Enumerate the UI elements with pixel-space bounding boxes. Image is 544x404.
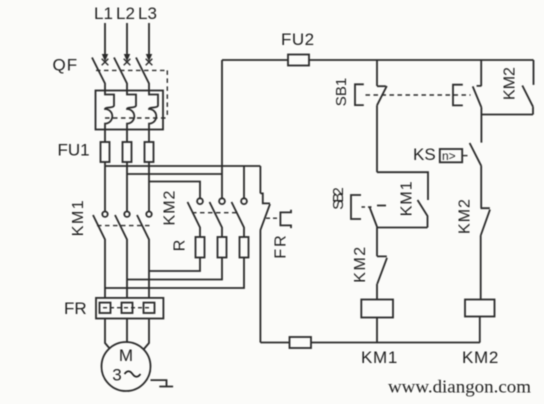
QF dashed vertical (trip linkage): [166, 70, 168, 118]
contactor KM2 main contact 3: [232, 198, 247, 237]
QF box: [96, 91, 164, 130]
svg-text:KM1: KM1: [361, 348, 398, 367]
control top wire with FU2: [222, 59, 534, 61]
svg-text:KM1: KM1: [70, 199, 87, 236]
KS sensor box: [440, 149, 462, 162]
svg-text:KM2: KM2: [502, 67, 519, 100]
thermal relay FR NC contact branch: [260, 166, 270, 343]
motor M circle: [102, 342, 151, 391]
SB1 button actuator bracket: [355, 84, 364, 105]
wire control left rail from FU2 wire down to KM2 contact 2: [221, 60, 223, 198]
QF linkage dashed line: [96, 69, 167, 71]
svg-text:KS: KS: [413, 145, 436, 164]
contactor KM2 main contact 1: [188, 198, 203, 237]
svg-text:3: 3: [112, 366, 121, 385]
contactor KM1 main contact 1: [93, 212, 108, 299]
coil KM1: [361, 300, 393, 318]
wire R1 return to phase3: [149, 258, 200, 272]
circuit breaker QF pole 3 blade: [136, 58, 149, 91]
wire R3 return to phase1: [105, 258, 244, 289]
wire phase 2 FU1 to KM1 contact: [126, 162, 128, 212]
wire phase 3 FU1 to KM1 contact: [148, 162, 150, 212]
wire KM2 coil to bottom rail: [479, 317, 481, 343]
ground symbol: [151, 380, 174, 386]
svg-text:SB1: SB1: [333, 78, 350, 106]
contactor KM1 main contact 3: [137, 212, 152, 299]
svg-text:www.diangon.com: www.diangon.com: [388, 377, 531, 397]
wire FR to motor V: [126, 319, 128, 343]
coil KM2: [465, 300, 495, 317]
node L2 incoming line with arrowhead: [124, 23, 131, 65]
KM1 linkage dashed: [97, 225, 150, 227]
pushbutton SB1 NO contact (right branch): [473, 60, 482, 143]
FR heater 2: [122, 303, 133, 313]
wire QF to FU1 phase 3: [148, 130, 150, 143]
FR heater dashed linkage: [103, 307, 152, 309]
contactor KM2 aux self-hold contact: [481, 60, 533, 115]
fuse FU2 lower: [290, 337, 312, 348]
pushbutton SB2 NO contact: [370, 206, 387, 228]
QF trip unit pole 3: [149, 91, 158, 130]
wire FR to motor U: [105, 319, 111, 350]
wire QF to FU1 phase 1: [104, 130, 106, 143]
svg-text:FU2: FU2: [281, 30, 315, 49]
resistor R element 1: [196, 237, 205, 258]
speed relay KS contact: [470, 143, 482, 208]
svg-text:KM2: KM2: [457, 198, 474, 234]
node L1 incoming line with arrowhead: [102, 23, 109, 65]
fuse FU2: [288, 55, 309, 66]
thermal relay FR box: [96, 298, 163, 319]
circuit breaker QF pole 1 blade: [92, 58, 105, 91]
KM1 aux NO contact blade: [418, 200, 428, 228]
wire phase 1 FU1 to KM1 contact: [104, 162, 106, 212]
svg-text:M: M: [119, 346, 133, 365]
svg-text:L3: L3: [138, 4, 157, 23]
contactor KM2 NC interlock (right branch): [481, 208, 491, 299]
svg-text:FR: FR: [64, 299, 87, 318]
wire R2 return to phase2: [127, 258, 222, 280]
fuse FU1 element 2: [123, 142, 132, 162]
wire KM1 coil to bottom rail: [376, 318, 378, 343]
FR heater 3: [144, 303, 155, 313]
wire tap phase2 to control rail / KM2 contact 2: [127, 173, 222, 175]
wire FR to motor W: [144, 319, 150, 350]
contactor KM2 NC interlock (left branch): [377, 228, 387, 300]
wire tap phase1 to KM2 contact 3 and control FR branch: [105, 165, 260, 167]
wire tap phase3 to KM2 contact 1: [149, 182, 200, 199]
FR contact actuator bracket: [280, 210, 291, 228]
control bottom rail: [260, 342, 480, 344]
SB1 linkage dashed: [366, 94, 471, 96]
svg-text:FU1: FU1: [58, 141, 90, 160]
QF trip unit pole 2: [127, 91, 136, 130]
QF trip unit pole 1: [105, 91, 114, 130]
svg-text:KM1: KM1: [399, 180, 416, 216]
SB2 linkage dashed: [362, 206, 373, 208]
svg-text:KM2: KM2: [462, 348, 499, 367]
SB2 actuator bracket: [351, 195, 361, 219]
svg-text:FR: FR: [273, 233, 290, 258]
resistor R element 3: [240, 237, 249, 258]
QF trip dashed horizontal: [105, 117, 167, 119]
FR heater 1: [100, 303, 111, 313]
svg-text:KM2: KM2: [162, 190, 179, 226]
resistor R element 2: [218, 237, 227, 258]
FR bracket dashed link: [266, 217, 280, 219]
fuse FU1 element 3: [145, 142, 154, 162]
KM2 linkage dashed: [192, 212, 240, 214]
svg-text:KM2: KM2: [352, 245, 369, 282]
svg-text:L2: L2: [116, 4, 135, 23]
svg-text:R: R: [172, 240, 189, 252]
node L3 incoming line with arrowhead: [146, 23, 153, 65]
contactor KM1 main contact 2: [115, 212, 130, 299]
wire QF to FU1 phase 2: [126, 130, 128, 143]
svg-text:L1: L1: [94, 4, 113, 23]
fuse FU1 element 1: [101, 142, 110, 162]
svg-text:QF: QF: [53, 56, 79, 75]
box bottom wire: [377, 227, 428, 229]
contactor KM2 main contact 2: [210, 198, 225, 237]
KS link: [462, 155, 467, 157]
wire KM2 contact 3 feed: [243, 166, 245, 198]
svg-text:SB2: SB2: [330, 188, 347, 210]
circuit breaker QF pole 2 blade: [114, 58, 127, 91]
KM1 aux contact branch box: [377, 172, 428, 200]
svg-text:n>: n>: [442, 149, 456, 163]
SB1 NO actuator bracket: [453, 85, 463, 106]
pushbutton SB1 NC contact: [376, 60, 378, 86]
